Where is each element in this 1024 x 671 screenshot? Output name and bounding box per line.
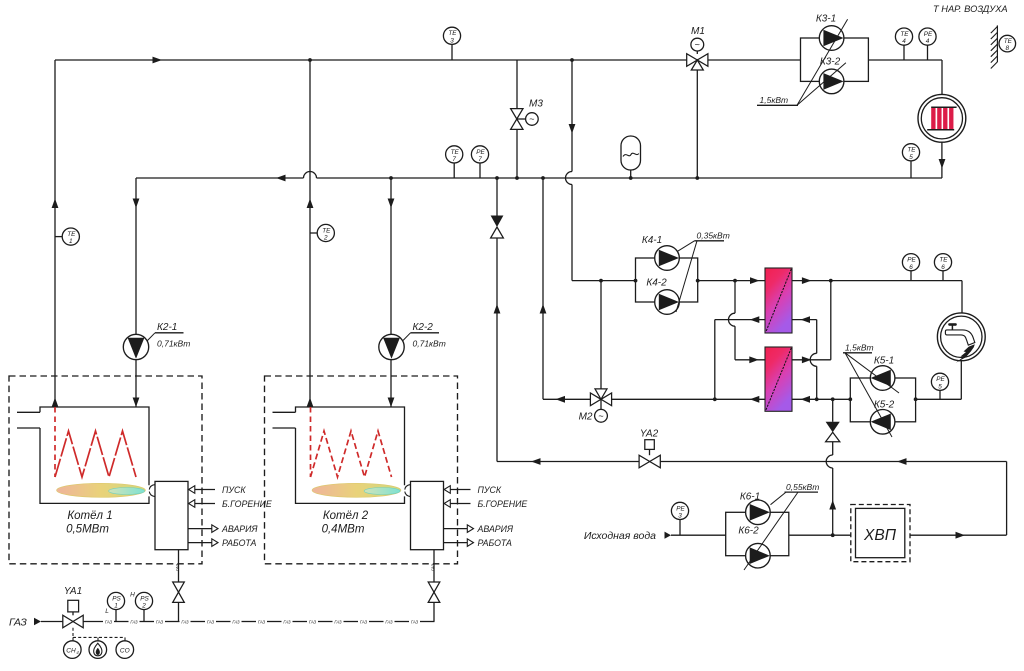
flow arrow left HX2 cold in: [801, 396, 811, 403]
svg-text:2: 2: [323, 235, 328, 242]
svg-text:РЕ: РЕ: [676, 505, 685, 512]
junction supply/K4 branch: [570, 58, 574, 62]
wire K6 out to HVP: [789, 534, 851, 536]
junction K4-feed/M2 branch: [599, 279, 603, 283]
junction supply/boiler2 riser: [308, 58, 312, 62]
junction return/expansion tank: [629, 176, 633, 180]
svg-text:3: 3: [678, 513, 682, 520]
flow arrow down K4 feed: [569, 124, 576, 134]
sensor TE5: [910, 161, 912, 178]
svg-text:ГАЗ: ГАЗ: [175, 564, 180, 571]
expansion tank: [621, 136, 641, 170]
svg-text:1,5кВт: 1,5кВт: [760, 95, 789, 105]
svg-text:К4-1: К4-1: [642, 235, 662, 246]
wire faucet to K5 line: [960, 361, 962, 400]
svg-text:К4-2: К4-2: [646, 278, 667, 289]
wire radiator return: [941, 142, 943, 178]
svg-text:К5-1: К5-1: [874, 356, 894, 367]
svg-text:ГАЗ: ГАЗ: [105, 619, 113, 624]
svg-text:ГАЗ: ГАЗ: [232, 619, 240, 624]
junction return/M2 branch: [541, 176, 545, 180]
svg-text:ТЕ: ТЕ: [448, 30, 457, 37]
radiator red sections: [931, 107, 935, 129]
junction return/check-valve branch: [495, 176, 499, 180]
svg-text:5: 5: [909, 154, 913, 161]
sensor TE7: [453, 163, 455, 178]
sensor TE2: [310, 232, 317, 234]
boiler 1 unit (Kotel 1, 0.5 MW): [9, 376, 202, 564]
junction K4 box outlet: [696, 279, 700, 283]
svg-text:Котёл 2: Котёл 2: [323, 510, 369, 522]
pump-box K4: [636, 258, 698, 302]
svg-text:~: ~: [529, 114, 534, 124]
svg-text:РЕ: РЕ: [476, 149, 485, 156]
flow arrow up on check branch: [494, 304, 501, 314]
heat exchanger HX2: [765, 347, 792, 411]
flow arrow left HX1 cold in: [801, 316, 811, 323]
flow arrow down boiler2 return at boiler: [388, 398, 395, 408]
junction DHW supply/HX2 cold out: [829, 279, 833, 283]
flow arrow left HX1 hot out: [750, 316, 760, 323]
sensor PE7: [479, 163, 481, 178]
wire gas to YA1: [41, 621, 63, 623]
flow arrow down boiler1 return: [133, 199, 140, 209]
flow arrow source water: [665, 532, 672, 539]
svg-text:РЕ: РЕ: [924, 31, 933, 38]
sensor PE4: [927, 45, 929, 60]
faucet (DHW draw-off): [937, 313, 985, 361]
sensor PE5: [939, 390, 941, 399]
valve M2 three-way: [590, 393, 601, 406]
svg-text:ГАЗ: ГАЗ: [207, 619, 215, 624]
svg-text:6: 6: [941, 264, 945, 271]
flow arrow up boiler1 supply: [52, 199, 59, 209]
svg-text:К2-2: К2-2: [413, 322, 434, 333]
flow arrow gas inlet: [34, 618, 41, 626]
svg-text:Т НАР. ВОЗДУХА: Т НАР. ВОЗДУХА: [933, 4, 1008, 14]
svg-text:ТЕ: ТЕ: [1004, 38, 1013, 45]
svg-text:0,5МВт: 0,5МВт: [66, 524, 109, 536]
junction K5 inlet: [914, 397, 918, 401]
junction K5-line/check valve: [831, 397, 835, 401]
wire boiler2 supply riser x=310: [309, 60, 311, 407]
svg-text:ТЕ: ТЕ: [451, 149, 460, 156]
wire HVP out: [910, 534, 1007, 536]
wire boiler2 return drop x=391: [390, 178, 392, 407]
svg-text:ГАЗ: ГАЗ: [411, 619, 419, 624]
wire M2 top port riser: [600, 281, 602, 389]
svg-text:6: 6: [909, 264, 913, 271]
wire makeup riser lower: [832, 442, 834, 455]
svg-text:ГАЗ: ГАЗ: [309, 619, 317, 624]
svg-text:ГАЗ: ГАЗ: [360, 619, 368, 624]
wire K4 feed from supply x=572: [571, 60, 573, 172]
svg-text:1: 1: [69, 238, 73, 245]
wire recirculation line: [497, 461, 639, 463]
svg-text:~: ~: [695, 40, 700, 50]
flow arrow down boiler2 return: [388, 199, 395, 209]
svg-text:К3-1: К3-1: [816, 14, 836, 25]
junction HX2 hot branch: [733, 279, 737, 283]
junction makeup riser/K6 line: [831, 533, 835, 537]
pump-box K5: [850, 378, 915, 422]
radiator symbol: [918, 94, 966, 142]
svg-text:ГАЗ: ГАЗ: [181, 619, 189, 624]
wire M2 to HX2 hot return: [612, 398, 765, 400]
svg-text:РЕ: РЕ: [907, 257, 916, 264]
svg-text:PS: PS: [140, 595, 149, 602]
sensor PE3: [679, 520, 681, 536]
wire main supply header y=60: [55, 59, 687, 61]
svg-text:К5-2: К5-2: [874, 400, 895, 411]
svg-text:Котёл 1: Котёл 1: [67, 510, 112, 522]
flow arrow right K4 out: [750, 277, 760, 284]
svg-text:ПУСК: ПУСК: [222, 485, 246, 495]
wire K5 out to HX2 cold in: [792, 398, 850, 400]
wire check valve branch lower: [496, 238, 498, 462]
wire HX2 hot feed drop: [734, 281, 736, 314]
flow arrow left recirc 2: [897, 458, 907, 465]
junction return/M3 bypass: [515, 176, 519, 180]
svg-text:7: 7: [478, 156, 482, 163]
wire DHW supply from HX1: [792, 280, 962, 282]
sensor CO: [116, 641, 134, 659]
svg-text:H: H: [130, 592, 135, 599]
svg-text:К6-1: К6-1: [740, 492, 760, 503]
wire HX2 cold out riser: [830, 281, 832, 360]
svg-text:4: 4: [926, 38, 930, 45]
flow arrow up boiler2 supply at boiler: [307, 398, 314, 408]
sensor TE6: [942, 271, 944, 281]
sensor PS1: [115, 610, 117, 622]
svg-text:К6-2: К6-2: [738, 526, 759, 537]
wire source water line: [671, 534, 726, 536]
svg-text:ПУСК: ПУСК: [478, 485, 502, 495]
svg-text:ТЕ: ТЕ: [322, 227, 331, 234]
svg-text:0,71кВт: 0,71кВт: [157, 338, 190, 348]
wire return header y=178: [136, 177, 304, 179]
wire M2 return line: [542, 178, 544, 399]
flow arrow up boiler2 supply: [307, 199, 314, 209]
pump K6-2: [746, 543, 771, 568]
svg-text:ГАЗ: ГАЗ: [283, 619, 291, 624]
flow arrow up boiler1 supply at boiler: [52, 398, 59, 408]
pump K2-1: [123, 334, 148, 359]
svg-text:М2: М2: [579, 412, 593, 423]
svg-text:0,71кВт: 0,71кВт: [413, 338, 446, 348]
svg-text:РАБОТА: РАБОТА: [222, 538, 257, 548]
svg-text:М3: М3: [529, 99, 543, 110]
flow arrow down radiator return: [939, 159, 946, 169]
gas analyzer interlock (dashed): [72, 628, 74, 638]
svg-text:ТЕ: ТЕ: [907, 147, 916, 154]
flow arrow left on return header: [276, 175, 286, 182]
svg-text:L: L: [105, 608, 109, 615]
pump K5-2: [870, 410, 895, 435]
svg-text:ГАЗ: ГАЗ: [258, 619, 266, 624]
pump-box K3: [801, 38, 869, 81]
svg-text:ГАЗ: ГАЗ: [430, 564, 435, 571]
flow arrow left HX2 hot out: [750, 396, 760, 403]
junction HX1-cold-in/K5 line: [815, 397, 819, 401]
svg-text:YA2: YA2: [640, 429, 659, 440]
svg-text:0,4МВт: 0,4МВт: [322, 524, 365, 536]
svg-text:АВАРИЯ: АВАРИЯ: [221, 524, 257, 534]
sensor PS2: [143, 610, 145, 622]
pump K5-1: [870, 366, 895, 391]
svg-text:К2-1: К2-1: [157, 322, 177, 333]
sensor TE1: [55, 236, 62, 238]
flow arrow right DHW supply: [802, 277, 812, 284]
svg-text:8: 8: [1006, 45, 1010, 52]
svg-text:АВАРИЯ: АВАРИЯ: [477, 524, 513, 534]
svg-text:YA1: YA1: [64, 586, 82, 597]
pump-box K6: [726, 512, 789, 555]
wire HX1 hot return: [715, 319, 765, 321]
flow arrow up makeup: [829, 500, 836, 510]
svg-text:2: 2: [141, 603, 146, 610]
svg-text:ГАЗ: ГАЗ: [156, 619, 164, 624]
valve YA1 solenoid: [63, 615, 73, 628]
svg-text:PS: PS: [112, 595, 121, 602]
svg-text:0,55кВт: 0,55кВт: [786, 482, 819, 492]
valve M3: [511, 109, 523, 119]
wire check valve branch upper: [496, 178, 498, 216]
svg-text:Б.ГОРЕНИЕ: Б.ГОРЕНИЕ: [478, 499, 528, 509]
svg-text:М1: М1: [691, 26, 705, 37]
sensor PE6: [910, 271, 912, 281]
HVP box: [851, 505, 910, 562]
junction return/M1 port: [695, 176, 699, 180]
svg-text:ГАЗ: ГАЗ: [385, 619, 393, 624]
valve YA2 solenoid: [639, 455, 650, 468]
flow arrow down boiler1 return at boiler: [133, 398, 140, 408]
junction return/boiler2 drop: [389, 176, 393, 180]
wire boiler1 supply riser x=55: [54, 60, 56, 407]
junction K4 box inlet: [634, 279, 638, 283]
flow arrow left into M2: [556, 396, 566, 403]
svg-text:ХВП: ХВП: [863, 527, 897, 544]
wire radiator feed: [941, 60, 943, 95]
wire K4 output to HX1: [698, 280, 765, 282]
flow arrow right HX2 hot in: [749, 356, 759, 363]
pump K6-1: [746, 500, 771, 525]
heat exchanger HX1: [765, 268, 792, 333]
svg-text:ГАЗ: ГАЗ: [130, 619, 138, 624]
svg-text:РАБОТА: РАБОТА: [478, 538, 513, 548]
boiler 2 unit (Kotel 2, 0.4 MW): [265, 376, 458, 564]
wire boiler1 return drop x=136: [135, 178, 137, 407]
flow arrow right on supply header: [153, 57, 163, 64]
svg-text:ТЕ: ТЕ: [67, 231, 76, 238]
svg-text:ТЕ: ТЕ: [939, 257, 948, 264]
wire DHW supply to faucet: [961, 281, 963, 313]
flow arrow right HX2 cold out: [802, 356, 812, 363]
svg-text:Исходная вода: Исходная вода: [584, 530, 656, 542]
svg-text:CH: CH: [66, 647, 76, 654]
sensor TE4: [903, 45, 905, 60]
flow arrow right HVP out: [956, 532, 966, 539]
svg-text:ГАЗ: ГАЗ: [9, 617, 27, 629]
wire makeup riser upper: [832, 399, 834, 422]
svg-text:7: 7: [452, 156, 456, 163]
svg-text:5: 5: [938, 383, 942, 390]
check valve makeup: [826, 422, 840, 433]
valve M1 three-way: [687, 54, 698, 67]
svg-text:ТЕ: ТЕ: [900, 31, 909, 38]
pump K4-2: [655, 290, 680, 315]
sensor TE8: [999, 35, 1016, 52]
sensor TE3: [451, 45, 453, 60]
wire gas main line: [83, 621, 103, 623]
svg-text:ГАЗ: ГАЗ: [334, 619, 342, 624]
wire M1 lower port: [696, 70, 698, 178]
svg-text:РЕ: РЕ: [936, 376, 945, 383]
svg-text:4: 4: [902, 38, 906, 45]
sensor CH4: [64, 641, 82, 659]
pump K3-1: [819, 26, 844, 51]
svg-text:CO: CO: [120, 647, 130, 654]
wire HX1 cold in drop: [792, 319, 817, 321]
svg-text:3: 3: [450, 37, 454, 44]
junction HX1-return/M2 line: [713, 397, 717, 401]
wall hatching for TE8: [996, 25, 998, 62]
svg-text:0,35кВт: 0,35кВт: [697, 231, 730, 241]
check valve upper (to return header): [491, 216, 504, 228]
flow arrow left recirc 1: [531, 458, 541, 465]
svg-text:1,5кВт: 1,5кВт: [845, 343, 874, 353]
flow arrow up M2 to header: [540, 304, 547, 314]
wire M3 bypass x=517: [516, 60, 518, 109]
junction K5 outlet: [848, 397, 852, 401]
pump K2-2: [379, 334, 404, 359]
pump K3-2: [819, 69, 844, 94]
pump K4-1: [655, 246, 680, 271]
svg-text:1: 1: [114, 603, 118, 610]
sensor flame detector: [89, 641, 107, 659]
svg-text:~: ~: [598, 411, 603, 421]
